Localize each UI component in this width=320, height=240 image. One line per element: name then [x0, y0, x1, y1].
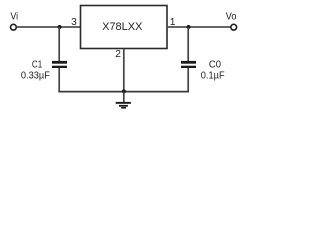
wire C1 down to rail — [58, 68, 60, 93]
svg-text:3: 3 — [71, 17, 77, 28]
svg-text:X78LXX: X78LXX — [102, 21, 143, 33]
junction node output — [187, 25, 191, 29]
capacitor C0 — [181, 61, 196, 68]
terminal Vi — [11, 24, 17, 30]
svg-text:C0: C0 — [209, 59, 222, 70]
svg-text:Vi: Vi — [11, 12, 19, 23]
ground — [116, 92, 131, 109]
wire bottom rail — [58, 91, 189, 93]
regulator U1 box — [81, 6, 168, 49]
junction node ground — [122, 89, 126, 93]
wire output junction down to C0 — [187, 27, 189, 61]
wire input junction down to C1 — [58, 27, 60, 61]
wire pin 2 down to ground rail — [123, 49, 125, 91]
wire C0 down to rail — [187, 68, 189, 93]
junction node input — [58, 25, 62, 29]
wire Vi to pin 3 — [17, 26, 80, 28]
svg-text:2: 2 — [115, 49, 121, 60]
svg-text:0.1µF: 0.1µF — [201, 71, 225, 82]
wire pin 1 to Vo — [168, 26, 231, 28]
svg-text:Vo: Vo — [226, 12, 237, 23]
svg-text:C1: C1 — [32, 59, 43, 70]
svg-text:0.33µF: 0.33µF — [21, 71, 50, 82]
capacitor C1 — [52, 61, 67, 68]
terminal Vo — [231, 24, 237, 30]
